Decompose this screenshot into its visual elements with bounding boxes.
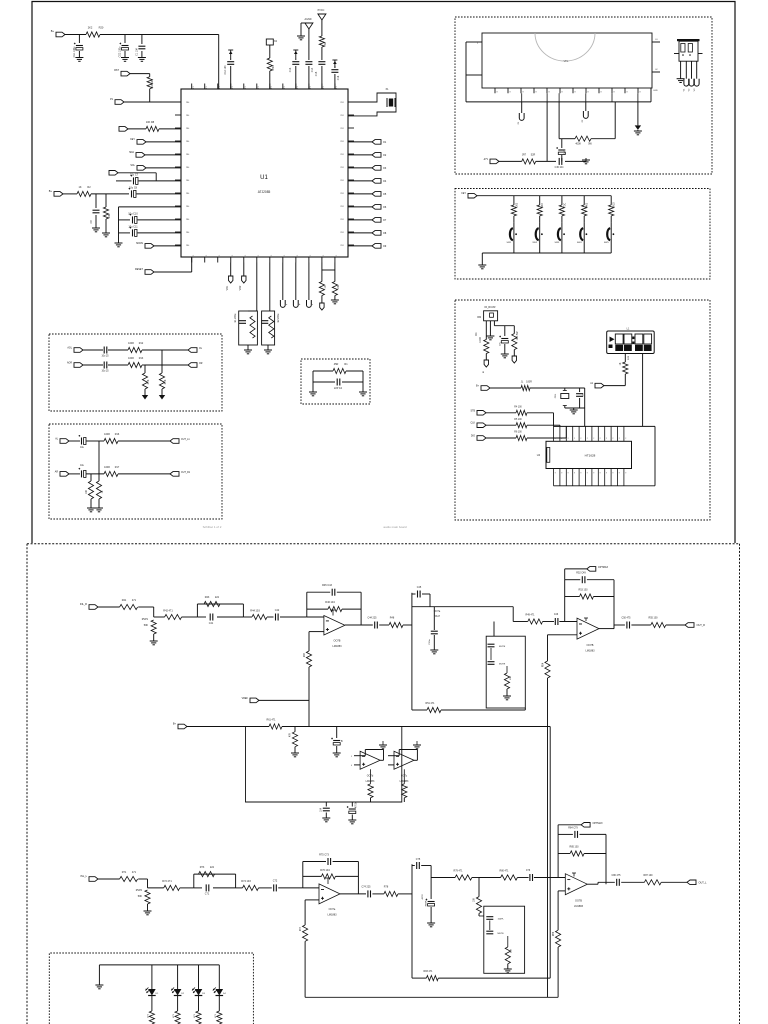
wire LED rail — [99, 964, 219, 966]
resistor R24 10K — [332, 282, 337, 296]
svg-text:VO1: VO1 — [227, 285, 229, 290]
svg-text:222: 222 — [215, 596, 220, 599]
stage2 left rail ch2 — [411, 864, 413, 978]
resistor R87 out ch2 — [644, 880, 661, 885]
LED D3 — [198, 965, 200, 989]
svg-text:2: 2 — [555, 438, 556, 440]
wire B+ panel rail — [490, 387, 521, 389]
svg-text:1K: 1K — [620, 362, 622, 365]
ground R24 — [334, 296, 336, 301]
LED driver U4 body — [546, 441, 632, 468]
top section border — [32, 2, 735, 544]
svg-text:SCL: SCL — [130, 164, 135, 167]
capacitor C72 — [273, 884, 275, 891]
mute cap C77 — [486, 916, 493, 918]
svg-text:KEY: KEY — [130, 138, 135, 141]
capacitor C9 to ground — [95, 194, 97, 208]
resistor R55 out ch1 — [651, 622, 666, 627]
svg-text:CLK: CLK — [471, 423, 476, 425]
svg-text:R54: R54 — [543, 662, 545, 667]
ground C1 — [138, 57, 146, 59]
resistor R14 shunt — [144, 365, 146, 373]
svg-text:C50 475: C50 475 — [621, 617, 631, 620]
svg-text:K1: K1 — [206, 255, 208, 257]
svg-text:P1: P1 — [297, 86, 299, 88]
svg-text:PA1: PA1 — [186, 205, 189, 208]
dashed box front panel — [455, 300, 710, 520]
crystal X1 loop — [348, 93, 396, 116]
ground LED rail — [98, 965, 100, 985]
svg-text:50K: 50K — [138, 895, 143, 898]
ground CE8 — [333, 752, 341, 754]
capacitor C41 rc — [209, 614, 211, 621]
svg-text:9: 9 — [561, 473, 562, 475]
op-amp U5A — [307, 616, 324, 618]
capacitor C50 out ch1 — [626, 622, 628, 629]
svg-text:B+: B+ — [173, 723, 177, 726]
svg-text:PB1: PB1 — [340, 219, 344, 221]
port right O8 — [348, 232, 372, 234]
section divider dashed line — [27, 543, 740, 545]
ground keys — [481, 253, 483, 265]
ground CE9 — [348, 819, 356, 821]
svg-text:R73: R73 — [200, 866, 205, 869]
port OUTL — [188, 348, 197, 353]
resistor R41 — [120, 604, 138, 609]
dashed box line-out filter — [49, 424, 222, 519]
mute resistor R50 — [506, 666, 508, 673]
svg-text:10u C11: 10u C11 — [128, 226, 138, 229]
resistor R47 vref leg — [306, 651, 311, 667]
wire INL — [98, 878, 120, 880]
wire -27V row — [499, 160, 522, 162]
port AOL in — [74, 348, 83, 353]
capacitor C11 — [119, 232, 131, 234]
svg-text:9: 9 — [600, 473, 601, 475]
op-amp U5A power stub — [332, 610, 334, 616]
svg-text:2: 2 — [587, 438, 588, 440]
svg-text:CE1 100u: CE1 100u — [73, 46, 76, 57]
port VREF tap — [250, 698, 259, 703]
svg-text:C80 475: C80 475 — [611, 874, 621, 877]
capacitor C74 out ch2 — [367, 890, 369, 897]
svg-text:INL_L: INL_L — [80, 875, 87, 878]
ground mute ch1 — [503, 695, 511, 697]
port B+ main input — [54, 192, 63, 197]
resistor R49 stage2 — [528, 619, 543, 624]
svg-text:4K2: 4K2 — [587, 202, 589, 207]
resistor R22 pin11 — [319, 36, 324, 47]
capacitor C14 pin10 — [305, 61, 312, 63]
driver top pins — [553, 426, 555, 441]
svg-text:10K: 10K — [510, 676, 512, 680]
svg-text:222: 222 — [210, 866, 215, 869]
svg-text:10u 25: 10u 25 — [101, 371, 109, 373]
resistor R28 1K to display — [624, 354, 626, 363]
svg-text:2K7: 2K7 — [542, 202, 544, 207]
svg-text:E1 220u: E1 220u — [235, 313, 237, 322]
capacitor CE9 below bus — [351, 802, 353, 807]
port right O3 — [348, 167, 372, 169]
resistor R61 — [269, 724, 282, 729]
MCU U1 body — [181, 89, 348, 257]
port right O6 — [348, 206, 372, 208]
stage2 top edge ch1 — [412, 606, 513, 608]
capacitor C16 pin12 — [331, 69, 338, 71]
ground CE2 — [121, 57, 129, 59]
svg-text:2: 2 — [574, 438, 575, 440]
resistor R72 — [164, 885, 180, 890]
svg-text:R43: R43 — [205, 596, 210, 599]
svg-text:U1: U1 — [260, 175, 268, 181]
cap-res network E2 — [262, 311, 275, 345]
vcc arrow pin4 — [228, 49, 233, 51]
svg-text:1K: 1K — [102, 490, 104, 493]
svg-text:R47: R47 — [304, 652, 306, 657]
port right O1 — [348, 141, 372, 143]
port LO2 in — [60, 472, 69, 477]
capacitor C1 104 — [141, 35, 143, 45]
svg-text:E2 220u: E2 220u — [278, 313, 280, 322]
dashed box audio LPF — [49, 334, 222, 411]
driver top bus — [554, 425, 656, 427]
svg-text:RVP2: RVP2 — [136, 889, 143, 892]
capacitor CE6 — [504, 326, 506, 336]
resistor R80 stage2 ch2 — [501, 875, 518, 880]
svg-text:10K R8: 10K R8 — [146, 121, 155, 124]
svg-text:P1: P1 — [193, 86, 195, 88]
svg-text:470K: 470K — [272, 65, 275, 71]
svg-text:C42: C42 — [275, 609, 280, 612]
svg-text:PB1: PB1 — [340, 193, 344, 195]
svg-text:RESET: RESET — [135, 268, 144, 271]
svg-text:OUT_L1: OUT_L1 — [181, 439, 190, 441]
MCU right pin stubs — [348, 101, 354, 103]
VFD pin drop wires — [521, 93, 523, 102]
wire LPF row2 — [83, 364, 103, 366]
svg-text:22P C4: 22P C4 — [334, 387, 343, 390]
port right O5 — [348, 193, 372, 195]
resistor R21 pin7 — [267, 58, 272, 71]
svg-text:K1: K1 — [193, 255, 195, 257]
resistor R25 shunt — [98, 474, 100, 481]
svg-text:P1: P1 — [206, 86, 208, 88]
svg-text:PA1: PA1 — [186, 218, 189, 221]
op-amp U7A power stub — [327, 878, 329, 884]
svg-text:9: 9 — [555, 473, 556, 475]
VFD bottom pins — [494, 88, 496, 93]
svg-text:4.7K: 4.7K — [165, 379, 167, 384]
resistor R19 10K — [147, 77, 152, 89]
svg-text:4008: 4008 — [575, 143, 581, 146]
wire keys top rail — [477, 195, 611, 197]
capacitor C60 below bus — [325, 802, 327, 807]
svg-text:MUTE: MUTE — [498, 933, 505, 935]
svg-text:OPTMAX: OPTMAX — [598, 566, 609, 569]
svg-text:R77: R77 — [300, 926, 302, 931]
svg-text:PB1: PB1 — [340, 180, 344, 182]
svg-text:C30 104: C30 104 — [555, 167, 564, 169]
VFD glass arc — [535, 33, 595, 61]
svg-text:100R: 100R — [128, 357, 134, 360]
svg-text:P1: P1 — [219, 86, 221, 88]
wire RST to resistor — [130, 73, 150, 75]
port SPK1 down — [230, 263, 232, 277]
ground VFD right — [637, 102, 639, 126]
ground AGND stub — [301, 22, 305, 24]
svg-text:C10u: C10u — [429, 639, 431, 645]
feedback network ch2 stage2 — [557, 834, 559, 877]
svg-text:C47u: C47u — [564, 149, 566, 155]
svg-text:CE2 100u: CE2 100u — [119, 46, 122, 57]
ground C60 — [322, 817, 330, 819]
port right O7 — [348, 219, 372, 221]
resistor key 5K23 — [610, 196, 612, 205]
svg-text:PB1: PB1 — [340, 102, 344, 104]
resistor key 2K7 — [539, 196, 541, 205]
stage2 bottom edge ch1 — [412, 709, 427, 711]
capacitor C8 10uF series — [131, 190, 133, 197]
svg-text:9: 9 — [593, 473, 594, 475]
svg-text:C72: C72 — [273, 880, 278, 883]
port OUTR — [188, 363, 197, 368]
crystal CR1 loop — [564, 388, 566, 391]
svg-text:4078: 4078 — [422, 894, 424, 900]
svg-text:4700u: 4700u — [356, 801, 358, 808]
ground U6A top — [382, 741, 384, 745]
resistor R71 — [120, 876, 138, 881]
wire LPF row1 — [83, 349, 103, 351]
ground CE1 — [75, 57, 83, 59]
resistor R51 bottom — [427, 707, 441, 712]
svg-text:2: 2 — [561, 438, 562, 440]
port R27 down — [512, 356, 516, 363]
svg-text:AGND: AGND — [305, 18, 312, 21]
svg-text:R85 103: R85 103 — [569, 846, 579, 849]
svg-text:P1: P1 — [284, 86, 286, 88]
port P5 — [137, 166, 146, 171]
ground C9 — [92, 227, 100, 229]
wire pin to cap box1 — [256, 263, 258, 312]
svg-text:R44 103: R44 103 — [250, 610, 260, 613]
volume pot RP2 — [145, 890, 150, 904]
mute cap CE7 ch1 — [433, 607, 435, 630]
svg-text:P1: P1 — [245, 86, 247, 88]
capacitor C13 pin9 — [292, 61, 299, 63]
resistor LED R92 — [196, 1011, 201, 1024]
svg-text:10u C8: 10u C8 — [129, 187, 138, 190]
capacitor C30 — [558, 158, 560, 165]
svg-text:0R: 0R — [324, 42, 327, 45]
testpoint TP2 — [295, 263, 297, 301]
resistor LED R91 — [175, 1011, 180, 1024]
resistor R43 feedback rc — [204, 601, 220, 606]
svg-text:PA1: PA1 — [186, 114, 189, 117]
jack J2 filament — [585, 102, 587, 111]
testpoint TP1 — [282, 263, 284, 301]
capacitor CE1 100uF — [78, 35, 80, 44]
port pin3 left — [115, 100, 124, 105]
op-amp U6A input stubs — [354, 755, 360, 757]
capacitor C44 out — [374, 622, 376, 629]
switch SW2 — [536, 228, 539, 240]
svg-text:K1: K1 — [245, 255, 247, 257]
svg-text:K1: K1 — [232, 255, 234, 257]
wire B+ amp rail — [187, 726, 269, 728]
svg-text:RM: RM — [477, 317, 481, 319]
vcc arrow pin12 — [332, 59, 337, 61]
resistor R42 — [165, 614, 182, 619]
svg-text:OUT_L: OUT_L — [699, 881, 708, 884]
svg-text:MUTE: MUTE — [499, 664, 506, 666]
op-amp U7B power stub — [573, 873, 575, 877]
ground CE6 — [501, 353, 509, 355]
svg-text:LM1883: LM1883 — [585, 650, 595, 653]
port P2 with resistor — [119, 127, 128, 132]
mute drop resistor R81 ch2 — [478, 878, 480, 897]
svg-text:JR7: JR7 — [522, 153, 527, 156]
svg-text:100R: 100R — [104, 466, 110, 469]
wire bottom vref rail — [305, 996, 558, 998]
ground -27V row — [583, 160, 586, 162]
capacitor C46 stage2 — [554, 618, 556, 625]
svg-text:K1: K1 — [336, 255, 338, 257]
capacitor C22 — [81, 438, 83, 445]
svg-text:1K2: 1K2 — [516, 202, 518, 207]
svg-text:VO2: VO2 — [240, 285, 242, 290]
svg-text:R71: R71 — [122, 871, 127, 874]
resistor R16 100R — [104, 438, 118, 443]
ground CE7 — [430, 649, 438, 651]
svg-text:R51 471: R51 471 — [425, 702, 435, 705]
svg-text:C1 104: C1 104 — [136, 47, 139, 55]
port VREF_R out — [170, 472, 179, 477]
svg-text:R13: R13 — [139, 357, 144, 360]
svg-text:R46 104: R46 104 — [325, 601, 335, 604]
feedback resistor R76 ch2 — [303, 875, 322, 877]
mute resistor R82 ch2 — [507, 936, 509, 947]
svg-text:R45 C43: R45 C43 — [322, 584, 332, 587]
cap-res network E1 — [239, 311, 258, 345]
RC network parallel ch2 — [193, 874, 195, 888]
svg-text:OO7a: OO7a — [434, 610, 441, 613]
svg-text:K1: K1 — [284, 255, 286, 257]
svg-text:CRL: CRL — [555, 393, 557, 398]
svg-text:10K: 10K — [511, 949, 513, 953]
svg-text:SW2: SW2 — [532, 242, 538, 244]
svg-text:PB1: PB1 — [340, 141, 344, 143]
svg-text:2: 2 — [568, 438, 569, 440]
svg-text:INL_R: INL_R — [80, 603, 87, 606]
svg-text:HA17: HA17 — [434, 615, 441, 618]
resistor R23 1K — [319, 282, 324, 296]
svg-text:REMU: REMU — [426, 899, 428, 906]
mute cap C78 — [486, 930, 493, 932]
capacitor C15 pin11 — [318, 61, 325, 63]
svg-text:HT1628: HT1628 — [585, 454, 596, 458]
ground RP2 — [144, 910, 152, 912]
svg-text:PB1: PB1 — [340, 232, 344, 234]
svg-text:STB: STB — [471, 410, 476, 412]
capacitor C32 crystal — [579, 391, 581, 393]
wire IR vcc — [493, 321, 495, 326]
vref block outline — [246, 727, 402, 803]
LED D2 — [177, 965, 179, 989]
svg-text:OPTMAX: OPTMAX — [593, 822, 604, 825]
switch SW4 — [580, 228, 583, 240]
port OUT_R — [685, 623, 694, 628]
driver bottom pins — [553, 469, 555, 486]
svg-text:5K23: 5K23 — [614, 202, 616, 208]
MCU top pin stubs — [191, 84, 193, 90]
svg-text:ATJ2085: ATJ2085 — [258, 190, 271, 194]
svg-text:R5 100: R5 100 — [514, 419, 522, 421]
port P4 — [136, 153, 145, 158]
svg-text:DC: DC — [476, 332, 478, 336]
svg-text:10K: 10K — [108, 213, 111, 218]
svg-text:9: 9 — [612, 473, 613, 475]
svg-text:PA1: PA1 — [186, 231, 189, 234]
svg-text:10u C7: 10u C7 — [130, 174, 139, 177]
svg-text:10K: 10K — [86, 489, 88, 494]
ground E1 — [247, 345, 249, 350]
port DIO — [477, 436, 486, 441]
svg-text:P1: P1 — [336, 86, 338, 88]
stage2 top stub cap ch2 — [412, 865, 415, 867]
svg-text:10u C10: 10u C10 — [128, 213, 138, 216]
svg-text:VREF: VREF — [242, 697, 249, 700]
svg-text:C74 225: C74 225 — [361, 886, 371, 889]
resistor key T2C — [561, 196, 563, 205]
feedback wire U6A — [380, 759, 383, 761]
svg-text:R53 103: R53 103 — [578, 589, 588, 592]
svg-text:MICIN: MICIN — [136, 242, 143, 245]
svg-text:K1: K1 — [271, 255, 273, 257]
capacitor C12 pin4 — [227, 61, 234, 63]
switch SW1 — [510, 228, 513, 240]
svg-text:SW3: SW3 — [555, 242, 561, 244]
svg-text:4.7K: 4.7K — [148, 379, 150, 384]
svg-text:471: 471 — [132, 599, 137, 602]
resistor R63 below U6A — [370, 769, 372, 784]
capacitor C76 stage2 ch2 — [529, 874, 531, 881]
svg-text:AOL: AOL — [67, 347, 72, 350]
dashed box keys — [455, 189, 710, 280]
wire opamp U7A out — [340, 893, 366, 895]
port IR out down — [484, 360, 488, 367]
svg-text:KEY: KEY — [461, 193, 466, 195]
resistor R3 10K to ground — [105, 194, 107, 207]
resistor R31 52R — [522, 159, 536, 164]
ground R62 — [291, 752, 299, 754]
svg-text:LM1883: LM1883 — [327, 914, 337, 917]
resistor R33 — [486, 424, 516, 426]
svg-text:P1: P1 — [323, 86, 325, 88]
svg-text:100R: 100R — [104, 433, 110, 436]
svg-text:10u 25: 10u 25 — [101, 356, 109, 358]
VFD module U2 body — [482, 33, 652, 88]
svg-text:2: 2 — [625, 438, 626, 440]
port P3 — [137, 140, 146, 145]
seven-segment play icon — [610, 337, 615, 343]
wire opamp1 out — [345, 624, 373, 626]
resistor R64 below U6B — [403, 769, 405, 784]
vcc arrow pin9 — [293, 49, 298, 51]
svg-text:1K: 1K — [324, 285, 327, 288]
svg-text:R12: R12 — [139, 342, 144, 345]
svg-text:100R: 100R — [526, 381, 532, 384]
wire junction vertical — [98, 441, 100, 474]
